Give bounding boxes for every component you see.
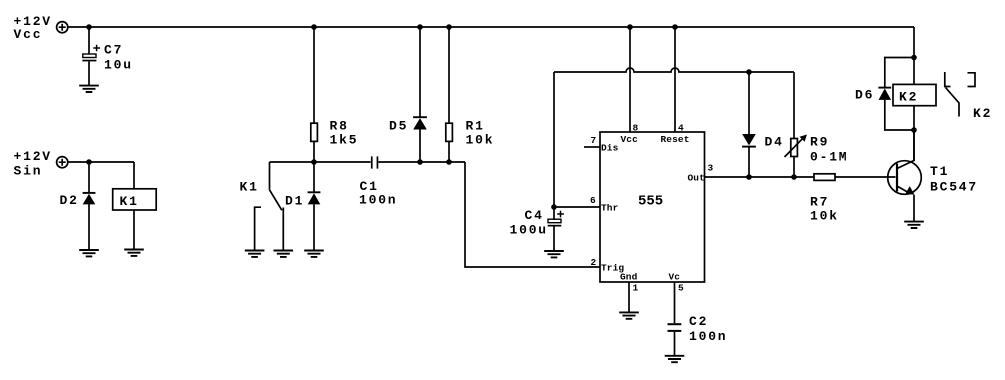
svg-text:R7: R7	[810, 195, 829, 210]
svg-text:6: 6	[590, 195, 596, 206]
svg-text:Thr: Thr	[601, 203, 619, 214]
switch K2 contact	[945, 72, 975, 117]
node junction D5 bottom	[417, 159, 423, 165]
node junction R8 top	[311, 24, 317, 30]
svg-text:D5: D5	[389, 119, 408, 134]
svg-text:7: 7	[591, 135, 597, 146]
svg-text:100u: 100u	[510, 223, 548, 238]
switch K1 contact	[255, 162, 284, 251]
pin 3 Out label	[688, 163, 714, 184]
node junction K2 top	[911, 55, 917, 61]
svg-text:D2: D2	[60, 193, 79, 208]
diode D1	[308, 162, 321, 251]
ground (D2)	[79, 250, 99, 256]
label R9 0-1M	[810, 135, 848, 165]
svg-text:K1: K1	[120, 194, 139, 209]
relay K1 coil	[113, 162, 157, 250]
diode D5	[413, 27, 427, 162]
ground (D1)	[304, 251, 324, 257]
node junction C7	[86, 24, 92, 30]
resistor R7	[814, 174, 896, 181]
svg-text:8: 8	[633, 123, 639, 134]
svg-text:Sin: Sin	[14, 164, 43, 179]
svg-text:+12V: +12V	[14, 149, 52, 164]
relay K2 coil	[893, 84, 936, 160]
label C7 10u	[104, 43, 133, 73]
ground (T1 emitter)	[904, 222, 924, 228]
svg-text:Vc: Vc	[669, 272, 681, 283]
svg-text:K2: K2	[899, 90, 918, 105]
node junction K2 bottom	[911, 127, 917, 133]
label +12V Vcc	[14, 14, 52, 42]
pin 2 Trig label	[591, 257, 625, 274]
svg-text:D4: D4	[765, 135, 784, 150]
wire Vcc rail down to K2	[913, 27, 915, 84]
diode D4	[742, 72, 756, 177]
node junction R9 bottom	[791, 174, 797, 180]
label R7 10k	[810, 195, 839, 224]
svg-text:C2: C2	[689, 314, 708, 329]
terminal +12V Vcc	[57, 22, 68, 33]
svg-text:D6: D6	[855, 88, 874, 103]
pin labels 8 4 Vcc Reset	[621, 123, 690, 145]
wire top rail	[68, 26, 914, 28]
node junction R8/D1	[311, 159, 317, 165]
svg-text:1k5: 1k5	[330, 133, 359, 148]
wire top line with hops	[554, 68, 794, 72]
svg-text:10k: 10k	[810, 209, 839, 224]
svg-text:Dis: Dis	[601, 143, 619, 154]
node junction D4 top	[746, 69, 752, 75]
transistor T1	[888, 130, 922, 222]
label C1 100n	[359, 179, 397, 208]
label +12V Sin	[14, 149, 52, 179]
diode D6	[878, 58, 914, 131]
IC U1 555 timer	[600, 132, 705, 282]
wire trig route	[465, 162, 600, 267]
node junction D2	[86, 159, 92, 165]
svg-text:2: 2	[591, 257, 597, 268]
pin 8 Vcc wire	[629, 27, 631, 132]
svg-text:Gnd: Gnd	[620, 272, 638, 283]
ground (C4)	[544, 251, 564, 257]
pin 5 Vc wire	[674, 282, 676, 323]
svg-text:4: 4	[678, 123, 684, 134]
svg-text:Vcc: Vcc	[14, 27, 43, 42]
svg-text:555: 555	[638, 194, 663, 210]
svg-text:10k: 10k	[466, 133, 495, 148]
label T1 BC547	[930, 164, 978, 195]
label C4 100u	[510, 208, 548, 238]
capacitor C4	[548, 207, 564, 251]
svg-text:R1: R1	[466, 119, 485, 134]
wire sin rail	[68, 161, 134, 163]
label C2 100n	[689, 314, 727, 344]
svg-text:D1: D1	[285, 194, 304, 209]
pin 6 Thr wire	[554, 206, 600, 208]
resistor R1	[446, 27, 453, 162]
svg-text:5: 5	[678, 283, 684, 294]
wire switch line left of C1	[270, 161, 371, 163]
ground (pin 1)	[619, 312, 639, 318]
svg-text:Reset: Reset	[661, 134, 690, 145]
svg-text:R9: R9	[810, 135, 829, 150]
svg-text:C4: C4	[525, 208, 544, 223]
ground (C7)	[79, 86, 99, 92]
svg-text:1: 1	[633, 283, 639, 294]
terminal +12V Sin	[57, 157, 68, 168]
svg-text:0-1M: 0-1M	[810, 150, 848, 165]
ground (K1 arm)	[274, 251, 294, 257]
resistor R8	[311, 27, 318, 162]
node junction R1 top	[446, 24, 452, 30]
node junction D5 top	[417, 24, 423, 30]
label R1 10k	[466, 119, 495, 148]
svg-text:R8: R8	[330, 119, 349, 134]
pin 4 Reset wire	[674, 27, 676, 132]
svg-text:3: 3	[708, 163, 714, 174]
svg-text:Out: Out	[688, 173, 705, 184]
pin 7 Dis stub	[584, 146, 600, 148]
svg-text:K2: K2	[973, 106, 992, 121]
capacitor C7	[82, 27, 100, 86]
capacitor C1	[371, 156, 378, 168]
ground (K1 fixed contact)	[245, 251, 265, 257]
svg-text:100n: 100n	[359, 193, 397, 208]
wire out line	[705, 176, 815, 178]
wire Thr vertical to top line	[553, 72, 555, 207]
label R8 1k5	[330, 119, 359, 148]
wire switch line right of C1	[378, 161, 465, 163]
node junction R1 bottom	[446, 159, 452, 165]
svg-text:K1: K1	[240, 180, 259, 195]
pin labels Gnd Vc	[620, 272, 680, 283]
svg-text:BC547: BC547	[930, 180, 978, 195]
svg-text:100n: 100n	[689, 329, 727, 344]
node junction Thr/C4	[551, 204, 557, 210]
svg-text:C7: C7	[104, 43, 123, 58]
svg-text:10u: 10u	[104, 58, 133, 73]
pin 1 Gnd wire	[628, 282, 630, 312]
capacitor C2	[668, 323, 682, 356]
ground (C2)	[665, 356, 685, 362]
svg-text:T1: T1	[930, 164, 949, 179]
ground (K1 coil)	[124, 250, 144, 256]
diode D2	[83, 162, 96, 250]
node junction D4 bottom	[746, 174, 752, 180]
potentiometer R9	[785, 72, 807, 177]
svg-text:Vcc: Vcc	[621, 134, 639, 145]
